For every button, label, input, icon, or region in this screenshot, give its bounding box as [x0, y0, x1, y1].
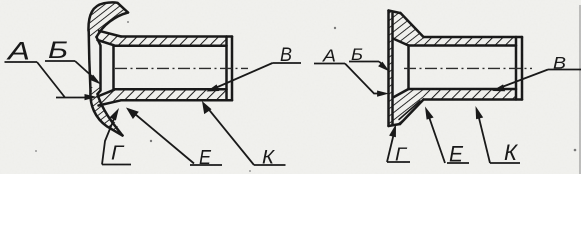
label К left underline [254, 164, 286, 166]
label В right leader [498, 70, 548, 89]
left rivet: flare bottom inner [98, 90, 115, 97]
label А right underline [314, 63, 345, 65]
right rivet: flange left edge [387, 11, 390, 127]
right rivet: bore end face [515, 37, 518, 100]
label А right arrowhead [377, 91, 389, 97]
right rivet: cone top outer [401, 13, 424, 37]
label В right arrowhead [492, 84, 505, 91]
left rivet: top wall hatch [98, 31, 227, 46]
left rivet: top curl inner contour [97, 13, 129, 38]
label К right arrowhead [476, 106, 484, 119]
label Е left arrowhead [126, 108, 139, 120]
left rivet: centerline [115, 67, 248, 69]
right rivet: outer top line [424, 36, 523, 39]
dust speck [334, 27, 336, 29]
paper grain overlay [0, 0, 581, 174]
label Г left arrowhead [110, 108, 119, 121]
left rivet: bore top line [114, 44, 227, 47]
label Б right underline [349, 61, 379, 63]
left rivet: bore bottom line [114, 88, 227, 91]
left rivet: outer bottom line [121, 99, 232, 102]
right rivet: centerline [404, 67, 532, 69]
label К left leader [206, 106, 254, 165]
left rivet: outer top line [121, 35, 232, 38]
left rivet: bore mouth edge [112, 46, 115, 90]
label К left arrowhead [202, 101, 212, 114]
left rivet: bottom curl outer contour [90, 91, 122, 136]
label Е left underline [190, 164, 222, 166]
label Г right leader [387, 133, 394, 162]
label В left underline [273, 62, 302, 64]
left rivet: flare bottom outer [99, 100, 122, 105]
right rivet: cone bottom inner [393, 89, 409, 98]
paper background [0, 0, 581, 174]
label Е left leader [132, 112, 194, 164]
right rivet: top wall hatch [424, 37, 517, 46]
label Б left underline [45, 60, 75, 62]
label Б right leader [379, 62, 385, 68]
scanner edge line right [579, 5, 581, 174]
left rivet: outer right end [231, 37, 234, 101]
left rivet: bottom wall hatch [98, 89, 227, 105]
right rivet: flange right edge [391, 13, 394, 124]
right rivet: bottom wall hatch [424, 89, 517, 100]
label К right underline [490, 162, 520, 164]
label А right leader [345, 64, 385, 94]
label В left leader [213, 63, 273, 89]
dust speck [35, 150, 37, 152]
right rivet: bottom cone+wall hatch [393, 89, 424, 124]
dust speck [574, 149, 577, 152]
right rivet: cone top inner [393, 39, 409, 46]
label Е right arrowhead [425, 107, 434, 120]
label Е right underline [447, 162, 469, 164]
right rivet: cone bottom fold line [399, 101, 420, 120]
dust speck [127, 21, 129, 23]
right rivet: flange hatch [389, 11, 393, 126]
label Б left arrowhead [89, 75, 101, 85]
label Б right arrowhead [378, 62, 389, 72]
label А left leader [37, 62, 93, 98]
left rivet: top curl outer contour [88, 2, 128, 31]
right rivet: bore top line [409, 44, 517, 47]
label В left arrowhead [207, 84, 220, 91]
dust speck [150, 140, 152, 142]
left rivet: head mouth silhouette [97, 37, 101, 94]
left rivet: bore end face [225, 37, 228, 101]
label Г right arrowhead [389, 124, 396, 137]
label Е right leader [428, 114, 445, 163]
left rivet: top curl hatch [88, 2, 128, 39]
right rivet: flange bottom edge [389, 124, 401, 126]
right rivet: bore mouth edge [407, 46, 410, 90]
left rivet: bottom curl inner contour [98, 94, 123, 136]
label В right underline [548, 69, 581, 71]
label Г left underline [102, 164, 131, 166]
right rivet: outer bottom line [424, 98, 523, 101]
right rivet: cone bottom outer [400, 100, 424, 125]
label Г right underline [387, 161, 410, 163]
label Г left leader [102, 114, 116, 165]
left rivet: bottom curl hatch [90, 87, 122, 136]
dust speck [249, 170, 251, 172]
right rivet: outer right end [521, 37, 524, 100]
label А left underline [5, 61, 38, 63]
right rivet: bore bottom line [409, 88, 517, 91]
right rivet: top cone+wall hatch [393, 13, 424, 46]
left rivet: flare top outer [99, 31, 121, 37]
left rivet: head silhouette left [89, 31, 91, 91]
label К right leader [478, 114, 490, 163]
label А left arrowhead [85, 94, 98, 100]
left rivet: flare top inner [98, 40, 115, 45]
right rivet: flange top edge [389, 11, 401, 14]
label Б left leader [75, 61, 95, 79]
